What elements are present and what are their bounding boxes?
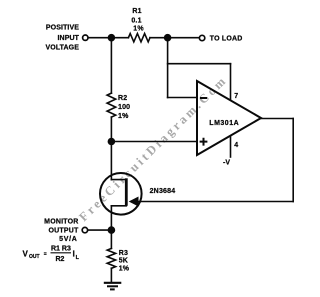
svg-text:5K: 5K [119,258,128,265]
wire R2 branch vertical upper [110,38,112,93]
svg-text:2N3684: 2N3684 [150,188,176,195]
label MONITOR OUTPUT 5V/A [44,219,79,243]
wire top left: input terminal to R1 [88,37,128,39]
op-amp plus sign [200,138,208,146]
wire to R3 [110,230,112,248]
transistor Q1 channel bar [125,178,128,206]
wire gate feedback horizontal [137,201,293,203]
wire feedback right vertical [292,119,294,202]
transistor Q1 2N3684 circle [100,173,142,215]
wire R3 to ground [110,268,112,282]
wire pin7 horizontal [168,63,231,65]
label R1 value [131,8,144,32]
svg-text:POSITIVE: POSITIVE [46,25,79,32]
resistor R3 zigzag [107,248,115,268]
terminal monitor output [82,227,87,232]
label R3 value [119,250,130,272]
svg-text:TO LOAD: TO LOAD [210,35,243,42]
wire inverting input horizontal [168,97,197,99]
junction dot node A [108,34,116,42]
svg-text:INPUT: INPUT [58,35,80,42]
svg-text:I: I [73,249,75,259]
wire inverting feedback vertical [167,38,169,98]
wire R2 to node B [110,117,112,141]
svg-text:7: 7 [234,93,238,100]
terminal to load [199,35,204,40]
junction dot monitor node [108,226,116,234]
wire R1 to load terminal [150,37,199,39]
junction dot node B [108,138,116,146]
svg-text:1%: 1% [118,113,129,120]
svg-text:R3: R3 [119,250,128,257]
svg-text:4: 4 [234,142,238,149]
svg-text:100: 100 [118,104,130,111]
wire source horizontal inside Q1 [111,205,126,207]
svg-text:VOLTAGE: VOLTAGE [46,44,80,51]
svg-text:MONITOR: MONITOR [44,219,78,226]
ground [104,283,122,290]
resistor R2 zigzag [107,93,116,117]
svg-text:R1 R3: R1 R3 [51,246,71,253]
svg-text:LM301A: LM301A [209,120,239,127]
svg-text:V: V [23,250,29,259]
svg-text:=: = [44,252,47,258]
terminal positive input [83,35,88,40]
wire drain vertical [110,142,112,180]
formula Vout = R1 R3 / R2 * IL [23,246,80,264]
svg-text:0.1: 0.1 [131,18,141,25]
op-amp minus sign [200,97,207,99]
svg-text:R2: R2 [56,256,65,263]
svg-text:OUTPUT: OUTPUT [49,228,79,235]
label POSITIVE INPUT VOLTAGE [46,25,80,52]
wire noninverting input [111,141,196,143]
svg-text:5V/A: 5V/A [59,236,77,243]
formula fraction bar [51,252,72,254]
wire monitor output [88,229,111,231]
junction dot node load side [164,34,172,42]
wire source vertical [110,206,112,230]
op-amp U1 triangle [197,81,261,155]
svg-text:1%: 1% [119,265,130,272]
transistor Q1 gate arrow [129,197,139,207]
svg-text:OUT: OUT [29,254,40,260]
wire pin7 vertical [230,64,232,100]
svg-text:R1: R1 [132,8,141,15]
label R2 value [118,95,130,120]
wire pin4 [230,137,232,158]
svg-text:1%: 1% [133,25,144,32]
wire drain horizontal inside Q1 [111,179,126,181]
wire op-amp output [261,118,293,120]
svg-text:-V: -V [223,160,230,167]
svg-text:R2: R2 [118,95,127,102]
resistor R1 zigzag [128,34,150,42]
